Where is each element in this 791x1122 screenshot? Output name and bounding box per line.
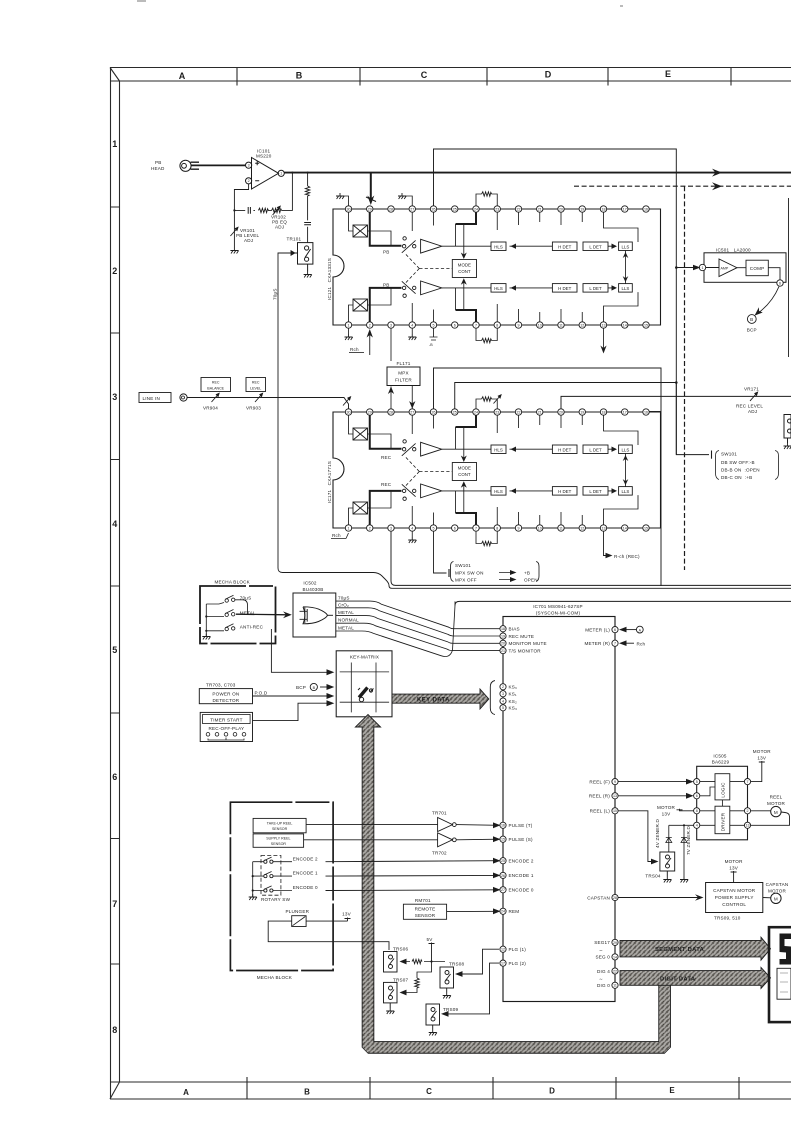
svg-text:70µS: 70µS xyxy=(240,596,252,601)
svg-text:TR701: TR701 xyxy=(432,811,447,816)
svg-text:MS220: MS220 xyxy=(256,154,272,159)
op-amp IC101 MS220 xyxy=(246,158,285,190)
svg-text:CAPSTAN: CAPSTAN xyxy=(587,895,610,900)
node B BCP output xyxy=(758,287,780,314)
key symbols inside matrix xyxy=(358,688,374,702)
svg-text:ENCODE 1: ENCODE 1 xyxy=(509,873,534,878)
wire at page edge right of IC501 xyxy=(788,198,790,357)
svg-text:MECHA BLOCK: MECHA BLOCK xyxy=(257,975,293,980)
svg-text:CrO₂: CrO₂ xyxy=(338,602,349,607)
svg-text:TR702: TR702 xyxy=(432,851,447,856)
output rail wire to right edge with arrow xyxy=(284,172,791,174)
sensor TAKE-UP REEL xyxy=(253,818,306,832)
svg-text:IC502: IC502 xyxy=(303,581,317,586)
svg-text:4: 4 xyxy=(112,519,117,529)
svg-text:DIG 4: DIG 4 xyxy=(597,969,610,974)
svg-text:12: 12 xyxy=(501,948,505,952)
svg-text:BALANCE: BALANCE xyxy=(207,387,224,391)
sensor RM701 REMOTE xyxy=(415,898,431,903)
svg-text:TRS07: TRS07 xyxy=(393,978,409,983)
svg-text:KEY DATA: KEY DATA xyxy=(417,697,450,703)
svg-text:29: 29 xyxy=(613,941,617,945)
svg-text:MOTOR: MOTOR xyxy=(768,889,786,894)
wire LINE IN to IC171 pin 16 xyxy=(187,398,348,409)
wire long run pair to right edge xyxy=(389,531,791,588)
wire REEL(F) to IC505 pin 5 xyxy=(618,781,692,783)
wire timer to key matrix xyxy=(253,703,331,720)
svg-text:6: 6 xyxy=(696,794,698,798)
svg-text:M: M xyxy=(774,810,778,815)
svg-text:25: 25 xyxy=(501,859,505,863)
svg-text:5: 5 xyxy=(502,706,504,710)
svg-text:IC501 LA2000: IC501 LA2000 xyxy=(716,248,751,253)
net labels encode xyxy=(293,856,318,890)
svg-text:PB: PB xyxy=(383,249,390,254)
transistor switch TR101 xyxy=(298,243,313,272)
svg-text:MPX: MPX xyxy=(398,371,409,376)
wire plunger circuit xyxy=(268,921,389,950)
svg-text:BCP: BCP xyxy=(296,685,306,690)
capacitor C feedback xyxy=(248,207,250,214)
wire PLG(2) to TR509 xyxy=(448,963,499,1014)
resistor loop above IC121 pins 24-23 xyxy=(476,194,497,206)
display unit block xyxy=(769,927,791,1022)
PB HEAD connector J101 xyxy=(180,160,199,171)
power MOTOR 13V to IC505 pin 7 xyxy=(753,749,771,761)
svg-text:B: B xyxy=(296,71,303,81)
svg-text:D: D xyxy=(545,70,552,80)
svg-text:15: 15 xyxy=(501,838,505,842)
svg-text:11: 11 xyxy=(613,984,617,988)
svg-text:(SYSCON-MI-COM): (SYSCON-MI-COM) xyxy=(536,611,581,616)
wire IC121 pin 3 down to FL171 xyxy=(390,328,392,361)
svg-text:6: 6 xyxy=(779,281,781,285)
svg-text:5: 5 xyxy=(112,645,117,655)
capacitor C xyxy=(304,223,311,225)
node Rch arrow into IC121 pin 2 xyxy=(369,331,371,355)
wire head to op-amp xyxy=(191,164,245,166)
svg-text:Rch: Rch xyxy=(637,641,646,646)
svg-text:2: 2 xyxy=(747,809,749,813)
svg-text:CAPSTAN MOTOR: CAPSTAN MOTOR xyxy=(713,888,756,893)
svg-text:TRS04: TRS04 xyxy=(645,874,661,879)
svg-text:P.O.D: P.O.D xyxy=(255,690,268,695)
svg-text:C: C xyxy=(426,1087,432,1096)
svg-text:AMP: AMP xyxy=(721,266,729,270)
wire bus from IC502 outputs down to syscon xyxy=(336,601,500,656)
wire zener bus to IC505 pin 4 xyxy=(669,824,694,826)
svg-text:REC-OFF-PLAY: REC-OFF-PLAY xyxy=(209,726,245,731)
mecha block 1 (tape select switches) xyxy=(215,580,251,585)
switch SW101 DB note xyxy=(675,383,677,455)
power MOTOR 13V to IC505 pin 8 xyxy=(657,805,675,817)
svg-text:POWER SUPPLY: POWER SUPPLY xyxy=(715,895,754,900)
ground below TR101 xyxy=(304,272,312,278)
svg-text:ENCODE 0: ENCODE 0 xyxy=(509,888,534,893)
svg-text:PB: PB xyxy=(155,160,162,165)
svg-text:+B: +B xyxy=(524,571,530,576)
svg-text:DIGIT DATA: DIGIT DATA xyxy=(660,976,696,982)
sensor SUPPLY REEL xyxy=(253,834,304,847)
svg-text:MPX SW ON: MPX SW ON xyxy=(455,571,484,576)
variable resistor VR904 REC BALANCE xyxy=(212,393,220,402)
switch 70uS xyxy=(219,595,248,614)
svg-text:MOTOR: MOTOR xyxy=(657,805,675,810)
svg-text:13V: 13V xyxy=(662,812,672,817)
svg-text:PLG (2): PLG (2) xyxy=(509,961,527,966)
svg-text:PLUNGER: PLUNGER xyxy=(286,909,310,914)
variable resistor VR903 REC LEVEL xyxy=(255,393,263,402)
svg-text:ADJ: ADJ xyxy=(244,238,253,243)
svg-text:SW101: SW101 xyxy=(721,452,737,457)
svg-text:BIAS: BIAS xyxy=(509,627,520,632)
svg-text:IC505: IC505 xyxy=(713,754,727,759)
svg-text:2: 2 xyxy=(248,179,250,183)
svg-text:PLG (1): PLG (1) xyxy=(509,947,527,952)
svg-text:TRS09, 510: TRS09, 510 xyxy=(714,916,741,921)
switch ANTI-REC xyxy=(206,624,235,631)
node BCP B input xyxy=(296,685,306,690)
svg-text:VR903: VR903 xyxy=(246,406,261,411)
svg-text:DB-C ON :+B: DB-C ON :+B xyxy=(721,475,752,480)
-B return below IC121 pin 5 xyxy=(430,328,438,340)
svg-text:BCP: BCP xyxy=(747,328,757,333)
transistor switch TRS04 xyxy=(660,852,675,877)
wire branch down into IC121 pin 23 xyxy=(370,174,372,201)
svg-text:6: 6 xyxy=(112,772,117,782)
ground at IC121 pin 27 xyxy=(402,196,412,206)
resistor feedback xyxy=(258,208,268,212)
ground below IC171 pin 4 xyxy=(411,531,413,537)
mecha block 2 xyxy=(230,802,333,970)
IC U121 CXA1331S tape playback IC xyxy=(333,206,661,328)
svg-text:7: 7 xyxy=(747,780,749,784)
bus SEGMENT DATA hatched arrow xyxy=(620,937,771,960)
amplifier IC501 LA2000 xyxy=(716,248,751,253)
wire sensor outputs to PULSE pins xyxy=(304,825,499,840)
ground below VR101 xyxy=(230,248,238,254)
svg-text:∼: ∼ xyxy=(599,948,603,953)
svg-text:5: 5 xyxy=(696,780,698,784)
wire below IC121 pin 13 xyxy=(603,328,605,352)
power MOTOR 13V capstan xyxy=(725,859,743,871)
svg-text:METAL: METAL xyxy=(338,626,354,631)
70uS vertical label xyxy=(273,288,278,300)
wire encode lines to pins xyxy=(326,861,500,891)
svg-text:B: B xyxy=(304,1088,310,1097)
svg-text:TRS08: TRS08 xyxy=(449,962,465,967)
svg-text:COMP: COMP xyxy=(750,266,765,271)
bus hatched key scan U-band xyxy=(368,722,665,1047)
buffer TR702 xyxy=(438,833,453,847)
svg-text:-B: -B xyxy=(429,343,433,347)
wire IC501 input from bus xyxy=(676,267,698,269)
svg-text:MONITOR MUTE: MONITOR MUTE xyxy=(509,641,547,646)
svg-text:IC171 CXA1771S: IC171 CXA1771S xyxy=(327,461,332,503)
svg-text:REEL (L): REEL (L) xyxy=(590,809,611,814)
svg-text:R-ch (REC): R-ch (REC) xyxy=(614,554,640,559)
filter FL171 MPX xyxy=(387,367,420,386)
variable resistor VR101 PB LEVEL ADJ xyxy=(230,227,238,236)
transistor switch TR509 xyxy=(443,1007,459,1012)
svg-text:1: 1 xyxy=(702,266,704,270)
motor CAPSTAN MOTOR xyxy=(766,882,789,894)
svg-text:DB-B ON :OPEN: DB-B ON :OPEN xyxy=(721,468,760,473)
svg-text:28: 28 xyxy=(613,896,617,900)
svg-text:14: 14 xyxy=(613,955,617,959)
svg-text:ENCODE 0: ENCODE 0 xyxy=(293,885,318,890)
svg-text:KS₃: KS₃ xyxy=(509,706,518,711)
svg-text:M: M xyxy=(774,897,778,902)
svg-text:4: 4 xyxy=(502,699,504,703)
resistor loop below IC171 pins 7-8 xyxy=(476,531,497,543)
svg-text:DRIVER: DRIVER xyxy=(721,812,726,831)
switch METAL xyxy=(206,610,235,617)
branch with resistor and capacitor to TR101 xyxy=(307,173,309,243)
svg-text:METER (R): METER (R) xyxy=(584,641,610,646)
svg-text:ENCODE 1: ENCODE 1 xyxy=(293,871,318,876)
svg-text:22: 22 xyxy=(613,969,617,973)
node ~ marks xyxy=(599,948,603,982)
svg-text:MECHA BLOCK: MECHA BLOCK xyxy=(215,580,251,585)
wire REEL(L) to TRS04 xyxy=(618,811,655,862)
wire TR507 drive with resistor xyxy=(405,962,432,993)
svg-text:ANTI-REC: ANTI-REC xyxy=(240,625,264,630)
svg-text:1: 1 xyxy=(112,139,117,149)
driver IC505 BA6229 xyxy=(712,754,730,765)
svg-text:7V ZENER.D: 7V ZENER.D xyxy=(686,825,691,855)
svg-text:3: 3 xyxy=(248,164,250,168)
svg-text:4: 4 xyxy=(696,824,698,828)
svg-text:6: 6 xyxy=(614,628,616,632)
svg-text:REMOTE: REMOTE xyxy=(415,907,436,912)
svg-text:REC: REC xyxy=(381,482,392,487)
bracket for KS bus xyxy=(490,681,495,715)
svg-text:7: 7 xyxy=(614,642,616,646)
keyboard KEY-MATRIX xyxy=(336,651,392,717)
svg-text:E: E xyxy=(669,1086,675,1095)
svg-text:2: 2 xyxy=(502,685,504,689)
svg-text:BU4030B: BU4030B xyxy=(302,587,323,592)
svg-text:27: 27 xyxy=(501,888,505,892)
switch SW101 MPX note xyxy=(434,531,447,573)
net labels tape EQ outputs xyxy=(338,596,359,631)
svg-text:18: 18 xyxy=(501,627,505,631)
wire REEL(R) to IC505 pin 6 xyxy=(618,795,692,797)
svg-text:TR101: TR101 xyxy=(287,237,302,242)
svg-text:ADJ: ADJ xyxy=(748,409,757,414)
svg-text:C: C xyxy=(421,70,428,80)
wire 5V to TR506 with resistor xyxy=(405,961,445,963)
svg-text:A: A xyxy=(179,71,186,81)
resistor R xyxy=(305,186,309,196)
svg-text:REC LEVEL: REC LEVEL xyxy=(736,404,763,409)
svg-text:TR703, C703: TR703, C703 xyxy=(206,683,236,688)
svg-text:LOGIC: LOGIC xyxy=(721,782,726,798)
svg-text:REM: REM xyxy=(509,909,520,914)
svg-text:KS₁: KS₁ xyxy=(509,692,518,697)
wire PLG(1) to TR508 xyxy=(462,949,499,974)
svg-text:METAL: METAL xyxy=(338,610,354,615)
svg-text:IC121 CXA1331S: IC121 CXA1331S xyxy=(327,258,332,300)
svg-text:TRS06: TRS06 xyxy=(393,947,409,952)
svg-text:TIMER START: TIMER START xyxy=(210,717,242,722)
transistor switch TR507 xyxy=(393,978,409,983)
svg-text:TRS09: TRS09 xyxy=(443,1007,459,1012)
svg-text:19: 19 xyxy=(501,634,505,638)
svg-text:REC MUTE: REC MUTE xyxy=(509,634,535,639)
svg-text:Rch: Rch xyxy=(350,347,359,352)
svg-text:MOTOR: MOTOR xyxy=(753,749,771,754)
svg-text:70µS: 70µS xyxy=(338,596,350,601)
IC U171 CXA1771S record IC xyxy=(333,409,661,531)
bus DIGIT DATA hatched arrow xyxy=(620,967,771,988)
svg-text:8: 8 xyxy=(696,809,698,813)
svg-text:LEVEL: LEVEL xyxy=(250,387,261,391)
power 13V plunger feed xyxy=(342,912,352,917)
svg-text:REC: REC xyxy=(212,381,220,385)
jack LINE IN xyxy=(139,393,171,403)
svg-text:ENCODE 2: ENCODE 2 xyxy=(293,856,318,861)
svg-text:BA6229: BA6229 xyxy=(712,760,730,765)
wire ANTI-REC to key matrix xyxy=(271,629,330,672)
svg-text:7: 7 xyxy=(112,899,117,909)
transistor switch TR506 xyxy=(393,947,409,952)
svg-text:FILTER: FILTER xyxy=(395,378,412,383)
svg-text:2: 2 xyxy=(112,266,117,276)
svg-text:CONTROL: CONTROL xyxy=(722,902,746,907)
svg-text:KS₀: KS₀ xyxy=(509,685,518,690)
svg-text:REC: REC xyxy=(252,381,260,385)
svg-text:REEL (R): REEL (R) xyxy=(589,794,610,799)
svg-text:T/S MONITOR: T/S MONITOR xyxy=(509,648,542,653)
svg-text:70µS: 70µS xyxy=(273,288,278,300)
wires FL171 to IC171 pins xyxy=(391,386,412,409)
svg-text:9: 9 xyxy=(614,780,616,784)
svg-text:13V: 13V xyxy=(342,912,352,917)
meter output A to pin 6 xyxy=(622,629,637,631)
gate IC502 BU4030B xyxy=(302,581,323,593)
wire 70uS line from TR101 down to row 5 xyxy=(278,251,389,586)
svg-text:∼: ∼ xyxy=(599,977,603,982)
svg-text:5V: 5V xyxy=(427,937,434,942)
wire IC171 pin 16 stub xyxy=(649,411,661,413)
wire IC171 loop at pin 26 xyxy=(434,368,662,586)
svg-text:20: 20 xyxy=(501,642,505,646)
svg-text:DB SW OFF:-B: DB SW OFF:-B xyxy=(721,460,755,465)
bus KEY DATA hatched arrow xyxy=(392,689,489,709)
svg-text:D: D xyxy=(549,1087,555,1096)
buffer TR701 xyxy=(432,811,447,816)
wire common + ground xyxy=(206,604,219,636)
svg-text:REEL (F): REEL (F) xyxy=(589,779,610,784)
svg-text:16: 16 xyxy=(501,824,505,828)
svg-text:8: 8 xyxy=(112,1025,117,1035)
svg-text:KS₂: KS₂ xyxy=(509,699,518,704)
svg-text:POWER ON: POWER ON xyxy=(212,691,239,696)
svg-text:13V: 13V xyxy=(729,866,739,871)
resistor loop above IC171 pins 24-23 xyxy=(476,399,497,409)
ground at IC121 pin 30 xyxy=(340,196,349,206)
IC701 pin circles xyxy=(500,626,618,989)
transistor switch TR508 xyxy=(449,962,465,967)
motor REEL MOTOR xyxy=(767,795,785,807)
svg-text:13: 13 xyxy=(613,794,617,798)
svg-text:SEG 0: SEG 0 xyxy=(595,955,610,960)
svg-text:KEY-MATRIX: KEY-MATRIX xyxy=(350,654,379,659)
svg-text:REEL: REEL xyxy=(770,795,783,800)
svg-text:NORMAL: NORMAL xyxy=(338,618,359,623)
svg-text:VR171: VR171 xyxy=(744,387,759,392)
svg-text:SUPPLY REEL: SUPPLY REEL xyxy=(266,836,290,840)
svg-text:4V ZENER.D: 4V ZENER.D xyxy=(655,818,660,848)
feedback network wire xyxy=(234,173,292,248)
svg-text:13: 13 xyxy=(746,824,750,828)
resistor loop below IC121 pins 7-8 xyxy=(476,328,497,340)
svg-text:LINE IN: LINE IN xyxy=(143,396,160,401)
variable resistor VR102 PB EQ ADJ xyxy=(272,208,282,212)
wire R-ch (REC) from IC171 pin 13 xyxy=(604,531,607,555)
wire loop from IC121 pin 26 top rail xyxy=(434,149,710,455)
svg-text:IC701 MS0941-627SP: IC701 MS0941-627SP xyxy=(533,604,583,609)
ground below IC121 pin 1 xyxy=(348,328,350,334)
svg-text:OPEN: OPEN xyxy=(524,578,538,583)
svg-text:MPX OFF: MPX OFF xyxy=(455,578,477,583)
svg-text:24: 24 xyxy=(501,910,505,914)
svg-text:Rch: Rch xyxy=(332,533,341,538)
power 5V xyxy=(427,937,434,942)
svg-text:CAPSTAN: CAPSTAN xyxy=(766,882,789,887)
wire IC171 pin 25 run xyxy=(455,383,677,409)
page frame xyxy=(110,68,791,1100)
svg-text:ADJ: ADJ xyxy=(275,225,284,230)
ground below IC121 pin 4 xyxy=(411,328,413,334)
svg-text:METER (L): METER (L) xyxy=(585,627,610,632)
variable resistor VR171 REC LEVEL ADJ xyxy=(750,392,758,401)
wire arrow into IC502 xyxy=(236,613,289,616)
svg-text:RM701: RM701 xyxy=(415,898,431,903)
svg-text:B: B xyxy=(750,317,753,322)
svg-text:SEG17: SEG17 xyxy=(594,940,610,945)
svg-text:DETECTOR: DETECTOR xyxy=(213,698,240,703)
svg-text:3: 3 xyxy=(112,392,117,402)
transistor at page edge xyxy=(784,415,791,444)
svg-text:13V: 13V xyxy=(757,756,767,761)
svg-text:PB: PB xyxy=(383,283,390,288)
svg-text:SW101: SW101 xyxy=(455,563,471,568)
wire CAPSTAN to control xyxy=(618,897,701,899)
svg-text:26: 26 xyxy=(501,874,505,878)
wire syscon top run xyxy=(455,601,791,605)
svg-text:3: 3 xyxy=(502,692,504,696)
node Rch at IC171 pin 1 xyxy=(332,533,341,538)
detector TR703,C703 POWER ON DETECTOR xyxy=(206,683,236,688)
svg-text:10: 10 xyxy=(613,809,617,813)
solenoid PLUNGER xyxy=(286,909,310,914)
svg-text:MOTOR: MOTOR xyxy=(767,801,785,806)
svg-text:21: 21 xyxy=(501,649,505,653)
bus arrow into key matrix xyxy=(355,715,380,728)
syscon microcomputer IC701 MS0941-627SP xyxy=(533,604,583,616)
svg-text:MOTOR: MOTOR xyxy=(725,859,743,864)
svg-text:SENSOR: SENSOR xyxy=(271,842,287,846)
svg-text:1: 1 xyxy=(280,172,282,176)
svg-text:E: E xyxy=(665,69,671,79)
control CAPSTAN MOTOR POWER SUPPLY CONTROL xyxy=(706,883,763,913)
svg-text:ENCODE 2: ENCODE 2 xyxy=(509,859,534,864)
switch rotary encoder block xyxy=(261,856,281,896)
svg-text:DIG 0: DIG 0 xyxy=(597,983,610,988)
